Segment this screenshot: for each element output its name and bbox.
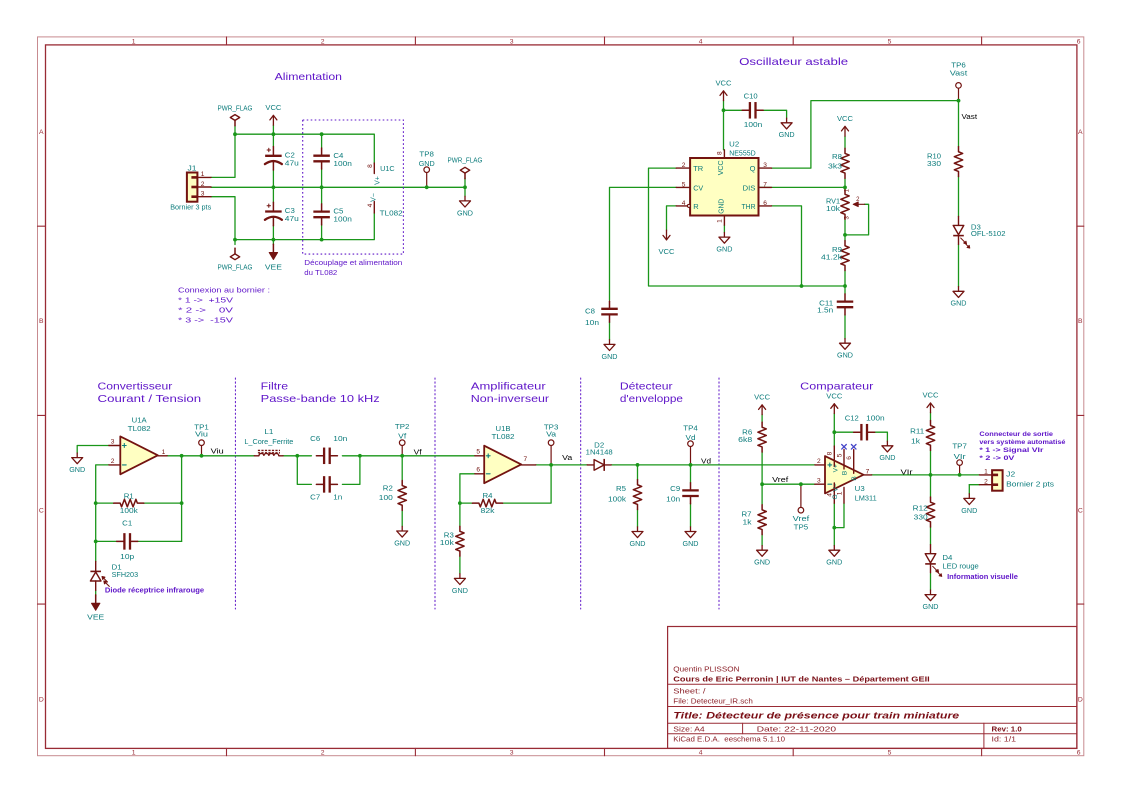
svg-text:Vf: Vf [414,449,422,456]
svg-text:3: 3 [111,439,115,446]
wire R6 to Vref node [761,452,763,484]
wire PWR_FLAG right stub [464,178,466,187]
svg-text:Alimentation: Alimentation [275,72,343,83]
wire D2 to comparator row B [611,464,815,466]
svg-text:GND: GND [826,558,843,567]
svg-text:6: 6 [1077,39,1081,46]
svg-text:GND: GND [717,198,726,214]
resistor R8 3k3 [828,148,849,178]
power port VCC alimentation [265,103,282,125]
svg-text:1: 1 [132,750,136,757]
svg-text:VCC: VCC [826,392,843,401]
capacitor C10 100n [742,92,763,129]
wire R8 to DIS node [844,178,846,187]
svg-text:A: A [39,129,44,136]
svg-text:TP2: TP2 [395,422,410,431]
svg-text:CV: CV [693,183,703,192]
svg-text:Vd: Vd [686,433,696,442]
svg-text:Vref: Vref [772,477,788,484]
svg-text:PWR_FLAG: PWR_FLAG [448,156,483,165]
svg-text:VCC: VCC [716,160,725,176]
svg-text:3: 3 [510,39,514,46]
svg-text:10k: 10k [826,204,840,213]
svg-text:100n: 100n [744,120,763,129]
wire RV1 top [844,187,846,189]
svg-text:NE555D: NE555D [729,148,756,157]
wire J2 pin2 to GND [969,484,979,486]
svg-text:VIr: VIr [901,469,914,476]
wire C12 row left [834,431,853,433]
wire C4 column [321,134,323,148]
wire node to C11 [844,286,846,294]
svg-text:1.5n: 1.5n [817,305,833,314]
svg-text:3k3: 3k3 [828,162,842,171]
svg-text:Non-inverseur: Non-inverseur [471,394,550,405]
resistor R9 41.2k [821,241,849,271]
svg-text:B: B [851,476,858,480]
title block [668,627,1077,749]
capacitor C6 10n [310,434,347,464]
svg-text:G: G [832,494,839,499]
svg-text:VIr: VIr [954,452,967,461]
svg-text:R12: R12 [913,504,928,513]
LED D4 rouge [925,545,979,577]
no-connect X on U3 pin5 [842,445,847,450]
wire CV to C8 [610,187,677,300]
resistor R10 330 [927,147,963,177]
ground GND below D4 [923,590,940,611]
svg-text:2: 2 [682,162,686,169]
svg-text:Détecteur: Détecteur [620,382,673,393]
wire RV1 bottom to node [844,219,846,235]
wire VCC row to pin8 555 [723,110,725,150]
svg-text:File: Detecteur_IR.sch: File: Detecteur_IR.sch [673,697,753,706]
svg-text:2: 2 [817,458,821,465]
svg-text:Oscillateur astable: Oscillateur astable [739,57,848,68]
svg-text:J2: J2 [1006,470,1015,479]
svg-text:VCC: VCC [754,393,771,402]
svg-text:6k8: 6k8 [738,435,752,444]
test point TP2 Vf [395,422,410,456]
wire R12 to D4 [930,527,932,545]
op-amp U1B TL082 [475,424,536,483]
capacitor C1 10p [117,519,138,561]
svg-text:1: 1 [201,171,205,178]
svg-text:Connexion au bornier :: Connexion au bornier : [178,285,270,294]
svg-text:Vast: Vast [962,114,978,121]
wire VCC pin8 column [833,414,835,447]
wire C9 top [690,465,692,483]
section separator lines [235,378,719,609]
junction dots amplificateur [458,463,553,505]
ground GND below R5 [630,527,647,548]
svg-text:SFH203: SFH203 [112,570,139,579]
power port VCC down at 555 reset [659,230,676,256]
svg-text:VCC: VCC [923,391,940,400]
svg-text:8: 8 [717,151,724,155]
svg-text:VCC: VCC [837,114,854,123]
svg-text:6: 6 [1077,750,1081,757]
wire J1 pin3 to bottom rail [211,197,235,240]
wire C1 right [138,540,182,542]
wire R3 to GND [459,556,461,574]
wire C10 row left [724,109,742,111]
wire C7 loop left [297,456,311,485]
svg-text:C9: C9 [670,484,680,493]
wire U1A +in to GND [77,446,109,454]
wire R4 left [460,502,473,504]
svg-text:4: 4 [367,203,374,207]
potentiometer RV1 10k [826,188,865,219]
svg-text:C7: C7 [310,492,320,501]
svg-text:100n: 100n [866,413,885,422]
svg-text:1k: 1k [743,518,752,527]
svg-text:V+: V+ [833,464,840,472]
svg-text:Bornier 2 pts: Bornier 2 pts [1006,480,1054,489]
svg-text:7: 7 [866,469,870,476]
wire Vast column to R10 [958,101,960,147]
svg-text:5: 5 [476,448,480,455]
svg-text:A: A [1078,129,1083,136]
svg-text:vers système automatisé: vers système automatisé [979,439,1065,446]
svg-text:Amplificateur: Amplificateur [471,382,547,393]
svg-text:VEE: VEE [265,263,282,272]
resistor R2 100 [379,480,407,510]
svg-text:VCC: VCC [716,79,733,88]
svg-text:VCC: VCC [659,247,676,256]
svg-text:5: 5 [888,39,892,46]
svg-text:R5: R5 [616,484,626,493]
svg-text:B: B [1078,318,1083,325]
wire R7 column [761,484,763,505]
svg-text:5: 5 [888,750,892,757]
svg-text:Rev: 1.0: Rev: 1.0 [992,725,1022,734]
svg-text:10n: 10n [666,495,680,504]
svg-text:TP5: TP5 [794,523,809,532]
resistor R6 6k8 [738,422,766,452]
ground GND below D3 [951,287,968,308]
svg-text:6: 6 [476,467,480,474]
wire D1 to VEE [95,590,97,596]
svg-text:C8: C8 [585,306,595,315]
wire VCC to R8 [844,136,846,148]
wire R pin to VCC down [667,206,677,230]
ground GND right of C12 [879,441,896,462]
svg-text:U2: U2 [729,139,739,148]
svg-text:Diode réceptrice infrarouge: Diode réceptrice infrarouge [105,586,204,595]
resistor R12 330 [913,497,935,527]
wire U1B output row B [536,464,587,466]
wire C1 left [96,540,117,542]
svg-text:6: 6 [763,200,767,207]
svg-text:TP8: TP8 [419,149,434,158]
wire R4 right to output [503,465,552,503]
svg-text:TL082: TL082 [492,432,515,441]
wire VCC to R6 [761,415,763,423]
svg-text:GND: GND [419,159,436,168]
wire C11 to GND [844,315,846,339]
svg-text:GND: GND [879,453,896,462]
svg-text:1: 1 [162,449,166,456]
svg-text:VCC: VCC [265,103,282,112]
wire TR to bottom loop [649,168,846,286]
wire VCC to R11 [930,413,932,421]
svg-text:PWR_FLAG: PWR_FLAG [218,263,253,272]
junction dots comparateur [760,430,961,529]
svg-text:R8: R8 [832,152,842,161]
svg-text:Viu: Viu [211,449,224,456]
junction dots filtre [295,454,404,458]
power port VCC at C10 [716,79,733,101]
svg-text:330: 330 [927,159,941,168]
resistor R7 1k [742,505,767,535]
wire RV1 wiper loop [845,204,869,235]
svg-text:THR: THR [742,202,757,211]
note Detecteur title [620,382,683,405]
op-amp U1A TL082 [109,416,167,475]
svg-text:C: C [39,507,44,514]
wire D3 to GND [958,245,960,287]
svg-text:U3: U3 [855,484,865,493]
wire feedback column right [181,456,183,542]
capacitor C9 10n [666,483,699,504]
wire L1 to C6 node [283,455,311,457]
svg-text:2: 2 [321,750,325,757]
resistor R3 10k [440,526,464,556]
wire U1A -in column [96,465,109,562]
svg-text:J1: J1 [188,164,197,173]
svg-text:Filtre: Filtre [261,382,289,393]
wire R2 to GND [401,510,403,526]
power port VCC at U3 pin8 [826,392,843,414]
svg-text:DIS: DIS [743,183,756,192]
wire R10 to D3 [958,177,960,217]
note connexion au bornier [178,285,270,324]
svg-text:100: 100 [379,493,393,502]
power flag PWR_FLAG top [218,103,253,125]
svg-text:GND: GND [951,299,968,308]
test point TP4 Vd [683,423,698,465]
svg-text:KiCad E.D.A. eeschema 5.1.10: KiCad E.D.A. eeschema 5.1.10 [673,734,785,743]
svg-text:Quentin PLISSON: Quentin PLISSON [673,665,739,674]
wire C5 column [321,187,323,204]
svg-text:L1: L1 [264,427,273,436]
svg-text:100n: 100n [333,159,352,168]
svg-text:47u: 47u [285,158,299,167]
wire THR down [772,206,802,286]
svg-text:Passe-bande 10 kHz: Passe-bande 10 kHz [261,394,380,405]
op-amp U1C power unit [367,163,403,217]
svg-text:L_Core_Ferrite: L_Core_Ferrite [244,437,293,446]
svg-text:Vf: Vf [398,432,407,441]
note connecteur de sortie [979,431,1065,462]
svg-text:10n: 10n [585,318,599,327]
svg-text:* 1 -> Signal VIr: * 1 -> Signal VIr [979,447,1043,454]
wire PWR_FLAG bottom stub [234,240,236,245]
svg-text:* 2 -> 0V: * 2 -> 0V [979,455,1015,462]
svg-text:OFL-5102: OFL-5102 [971,229,1006,238]
svg-text:Id: 1/1: Id: 1/1 [992,734,1017,743]
svg-text:GND: GND [452,586,469,595]
power flag PWR_FLAG bottom [218,248,253,271]
svg-text:R11: R11 [910,427,924,436]
wire R11 to output node [930,450,932,475]
no-connect X on U3 pin6 [851,445,856,450]
svg-text:2: 2 [201,181,205,188]
svg-text:2: 2 [321,39,325,46]
wire U3 pin4 to GND node [833,503,835,545]
svg-text:GND: GND [394,538,411,547]
ground GND below R2 [394,526,411,547]
wire DIS to node [759,186,846,188]
ground GND below J2 [961,494,978,515]
wire PWR_FLAG top stub [234,126,236,134]
svg-text:* 3 -> -15V: * 3 -> -15V [178,315,233,324]
svg-text:TL082: TL082 [128,424,151,433]
wire R5 to GND [637,510,639,527]
svg-text:Q: Q [750,164,756,173]
ground GND at 555 pin1 [716,233,733,254]
inductor L1 L_Core_Ferrite [244,427,293,456]
ground GND below C11 [837,339,854,360]
svg-text:Vd: Vd [701,458,711,465]
svg-text:Information visuelle: Information visuelle [947,572,1018,581]
wire VEE stub [272,240,274,245]
diode D2 1N4148 [586,441,613,471]
svg-text:GND: GND [716,245,733,254]
svg-text:10n: 10n [333,434,347,443]
wire C10 to GND [764,110,787,118]
note Convertisseur title [98,382,202,405]
svg-text:3: 3 [510,750,514,757]
wire R1 right [144,502,182,504]
wire node to R9 [844,235,846,241]
svg-text:Viu: Viu [195,429,208,438]
test point TP1 Viu [194,423,209,456]
svg-text:GND: GND [754,558,771,567]
IC U2 NE555D [676,139,771,225]
svg-text:1k: 1k [911,436,920,445]
svg-text:GND: GND [923,602,940,611]
capacitor C4 100n [313,148,352,169]
wire U3 pin1 to GND node [834,503,844,527]
svg-text:1n: 1n [333,492,342,501]
svg-text:LM311: LM311 [855,494,877,503]
wire C6 to TP2 and U1B [342,455,475,457]
svg-text:C6: C6 [310,434,320,443]
capacitor C3 47u [265,202,299,226]
junction dots detecteur [636,463,693,467]
wire GND right stub [464,187,466,196]
junction dots oscillateur [722,99,961,288]
svg-text:B: B [39,318,44,325]
svg-text:41.2k: 41.2k [821,253,842,262]
svg-text:100n: 100n [333,214,352,223]
svg-text:LED rouge: LED rouge [942,561,978,570]
svg-text:C10: C10 [744,92,758,101]
wire mid rail (0V) [211,186,465,188]
svg-text:Va: Va [562,455,572,462]
junction dots convertisseur [94,454,204,543]
wire R2 top [401,456,403,481]
power port VCC at R11 [923,391,940,413]
svg-text:3: 3 [201,190,205,197]
wire R7 to GND [761,535,763,546]
wire U1B -in column [460,474,475,503]
ground GND below R3 [452,574,469,595]
resistor R4 82k [472,491,502,515]
note Amplificateur title [471,382,550,405]
svg-text:* 1 -> +15V: * 1 -> +15V [178,295,233,304]
wire R3 column [459,503,461,526]
test point TP6 Vast [950,61,969,101]
ground GND at U1A +in [69,453,86,474]
svg-text:GND: GND [630,539,647,548]
wire R9 to bottom node [844,271,846,287]
svg-text:1N4148: 1N4148 [586,447,613,456]
svg-text:4: 4 [699,750,703,757]
svg-text:Connecteur de sortie: Connecteur de sortie [979,431,1053,438]
capacitor C12 100n [845,413,885,440]
svg-text:Bornier 3 pts: Bornier 3 pts [170,203,211,212]
svg-text:4: 4 [699,39,703,46]
svg-text:TP7: TP7 [952,442,967,451]
svg-text:82k: 82k [481,506,495,515]
wire R12 column [930,475,932,497]
svg-text:Courant / Tension: Courant / Tension [98,394,202,405]
svg-text:8: 8 [827,451,834,455]
svg-text:R4: R4 [483,491,493,500]
svg-text:2: 2 [111,458,115,465]
svg-text:5: 5 [836,453,843,457]
svg-text:7: 7 [523,456,527,463]
svg-text:2: 2 [984,478,988,485]
svg-text:100k: 100k [608,495,626,504]
svg-text:7: 7 [763,181,767,188]
power port VEE alimentation [265,244,282,271]
svg-text:V−: V− [833,483,840,491]
svg-text:Convertisseur: Convertisseur [98,382,173,393]
svg-text:* 2 -> 0V: * 2 -> 0V [178,305,233,314]
capacitor C8 10n [585,301,618,327]
test point TP8 GND [419,149,436,187]
svg-text:du TL082: du TL082 [304,268,337,277]
wire D4 to GND [930,573,932,590]
note Filtre title [261,382,380,405]
wire C3 column [272,187,274,202]
wire R1 left [96,502,114,504]
svg-text:V+: V+ [375,176,382,185]
svg-text:Title: Détecteur de présence p: Title: Détecteur de présence pour train … [673,711,960,722]
wire top rail VCC [235,134,374,163]
svg-text:Vast: Vast [950,69,969,78]
svg-text:U1C: U1C [380,164,395,173]
wire VCC stub [272,125,274,134]
svg-text:GND: GND [602,352,619,361]
LED D3 OFL-5102 [953,216,1005,248]
svg-text:R1: R1 [124,492,134,501]
connector J2 Bornier 2 pts [979,469,1054,491]
ground GND below C8 [602,340,619,361]
svg-text:D: D [39,696,44,703]
wire bottom rail VEE [235,213,374,240]
capacitor C2 47u [265,147,299,171]
svg-text:V−: V− [371,193,378,202]
test point TP3 Va [544,423,559,465]
power port VEE below D1 [87,595,104,622]
wire C2 column [272,134,274,146]
capacitor C11 1.5n [817,294,853,315]
